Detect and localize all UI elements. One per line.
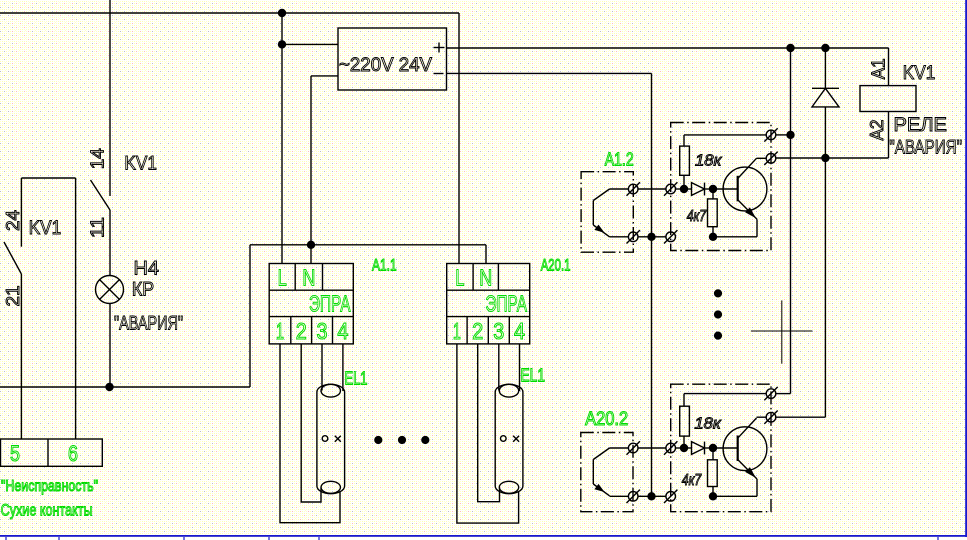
tube cap bottom	[321, 481, 340, 493]
svg-text:А20.2: А20.2	[585, 409, 628, 430]
node -24V A20.2	[647, 492, 655, 500]
wire base	[713, 447, 738, 449]
wire pin3 drop	[498, 344, 500, 391]
svg-text:4к7: 4к7	[682, 472, 702, 489]
svg-text:24: 24	[3, 210, 23, 231]
wire 18k terminal A20.2	[776, 393, 791, 395]
node L1 / supply input	[278, 40, 286, 48]
power supply U1 box	[338, 28, 447, 90]
relay coil KV1 box	[860, 86, 916, 112]
wire bottom left horizontal to N rail	[0, 386, 250, 388]
svg-text:3: 3	[493, 318, 504, 344]
svg-text:EL1: EL1	[521, 366, 546, 386]
svg-text:N: N	[479, 265, 492, 291]
svg-text:21: 21	[3, 286, 23, 307]
terminal amp input top	[666, 184, 676, 194]
svg-text:"АВАРИЯ": "АВАРИЯ"	[889, 137, 962, 159]
wire contact 24 upper lead	[20, 178, 22, 247]
wire pin2 route	[478, 344, 500, 502]
wire sensor to amp bottom	[638, 236, 666, 238]
transistor Q1	[723, 167, 767, 211]
terminal sensor top	[628, 443, 638, 453]
plus sign	[434, 47, 445, 49]
wire N rail riser	[249, 245, 251, 387]
wire 18k terminal A1.2	[776, 134, 791, 136]
svg-text:6: 6	[68, 441, 78, 466]
wire top edge	[21, 177, 75, 179]
wire sensor to amp top	[638, 188, 666, 190]
terminal amp input bottom	[666, 492, 676, 502]
svg-text:L: L	[278, 265, 287, 291]
diode VD1	[824, 48, 826, 88]
KV1 contact block left	[1, 178, 103, 466]
sensor block A20.2	[581, 384, 778, 512]
blue drawing border right	[965, 0, 967, 537]
phototransistor symbol	[610, 188, 629, 190]
resistor 4k7	[712, 448, 714, 460]
svg-text:4к7: 4к7	[687, 208, 707, 225]
wire N to ЭПРА A20.1 pin N	[485, 245, 487, 264]
terminal collector output	[766, 412, 776, 422]
svg-text:14: 14	[88, 148, 108, 169]
blue drawing border bottom	[0, 535, 967, 537]
svg-text:KV1: KV1	[29, 217, 62, 239]
sensor dash-dot box	[581, 172, 633, 253]
diode A1.2	[692, 183, 705, 196]
terminal sensor bottom	[628, 232, 638, 242]
node top bus / L1	[278, 9, 286, 17]
wire N to ЭПРА A1.1 pin N	[310, 76, 312, 264]
diode A20.2	[692, 442, 705, 455]
wire relay coil A2 down	[888, 112, 890, 159]
resistor 18k	[683, 436, 685, 448]
ЭПРА ballast A20.1	[447, 264, 530, 344]
wire pin4 drop	[519, 344, 521, 391]
svg-text:Н4: Н4	[134, 257, 160, 279]
svg-text:1: 1	[276, 318, 284, 344]
ЭПРА ballast A1.1	[269, 264, 353, 344]
wire -24V line	[447, 72, 652, 74]
tube cap top	[499, 384, 518, 397]
svg-text:5: 5	[10, 441, 20, 466]
amplifier dash-dot box A20.2	[671, 384, 771, 512]
wire A2 horizontal to collector terminal	[776, 157, 889, 159]
node diode anode A1.2	[680, 185, 688, 193]
wire N input to power supply	[311, 75, 338, 77]
svg-text:2: 2	[296, 318, 307, 344]
wire KV1 contact 14 upper lead	[109, 0, 111, 196]
tube cap top	[321, 384, 340, 397]
wire phase to ЭПРА A1.1 pin L	[281, 13, 283, 264]
terminal 18k output	[766, 130, 776, 140]
wire 18k bus riser	[790, 48, 792, 394]
emitter arrow Q2	[745, 467, 756, 478]
terminal strip 5/6 box	[1, 439, 103, 466]
contact KV1 21-24 blade	[4, 242, 21, 274]
tube marks	[322, 436, 328, 442]
sensor arrow A1.2	[594, 225, 604, 233]
minus sign	[434, 73, 444, 75]
wire emitter to bottom	[713, 236, 757, 238]
svg-text:2: 2	[472, 318, 483, 344]
node +24V / 18k riser	[786, 44, 794, 52]
svg-text:N: N	[302, 265, 315, 291]
wire input to diode	[676, 188, 692, 190]
node 4k7 emitter A1.2	[709, 233, 717, 241]
wire collector bus A20.2	[824, 158, 826, 417]
wire top bus 220V phase	[0, 12, 459, 14]
node diode cathode A20.2	[709, 444, 717, 452]
node 4k7 emitter A20.2	[709, 492, 717, 500]
svg-text:3: 3	[317, 318, 328, 344]
terminal amp input top	[666, 443, 676, 453]
node diode anode A20.2	[680, 444, 688, 452]
wire +24V bus	[447, 47, 889, 49]
svg-text:A2: A2	[867, 120, 887, 141]
wire sensor to amp bottom	[638, 495, 666, 497]
svg-text:1: 1	[453, 318, 461, 344]
svg-text:А1.1: А1.1	[372, 255, 397, 274]
ellipsis dots between lamps	[374, 436, 429, 444]
lamp H4 circle	[96, 276, 124, 304]
svg-text:ЭПРА: ЭПРА	[309, 291, 351, 317]
wire N horizontal bus	[250, 244, 486, 246]
resistor 18k	[683, 175, 685, 189]
svg-text:А1.2: А1.2	[605, 150, 634, 170]
svg-text:EL1: EL1	[345, 369, 368, 389]
svg-text:A1: A1	[868, 58, 888, 79]
node 18k riser / A1.2	[786, 131, 794, 139]
wire pin3 drop	[321, 344, 323, 391]
wire +24V to relay coil A1	[888, 48, 890, 86]
sensor dash-dot box	[581, 433, 633, 512]
svg-text:"АВАРИЯ": "АВАРИЯ"	[114, 313, 183, 335]
terminal 18k output	[766, 389, 776, 399]
sensor block A1.2	[581, 123, 778, 253]
svg-text:11: 11	[88, 217, 108, 238]
wire pin4 drop	[342, 344, 344, 391]
cursor crosshair	[751, 300, 813, 363]
svg-text:А20.1: А20.1	[541, 255, 571, 274]
svg-text:Сухие контакты: Сухие контакты	[1, 501, 93, 520]
node -24V A1.2	[647, 233, 655, 241]
terminal sensor top	[628, 184, 638, 194]
wire contact 11 to lamp H4	[109, 210, 111, 276]
svg-text:4: 4	[514, 318, 525, 344]
svg-text:KV1: KV1	[124, 153, 156, 175]
svg-text:КР: КР	[132, 279, 154, 301]
node +24V / diode	[821, 44, 829, 52]
node diode cathode A1.2	[709, 185, 717, 193]
transistor Q2	[723, 427, 767, 471]
wire input to diode	[676, 447, 692, 449]
svg-text:РЕЛЕ: РЕЛЕ	[894, 114, 948, 136]
lamp EL1 second	[457, 344, 523, 523]
wire pin1 route	[280, 344, 340, 523]
tube EL1 outline	[495, 384, 523, 493]
svg-text:~220V 24V: ~220V 24V	[339, 54, 432, 76]
tube EL1 outline	[317, 384, 345, 493]
contact KV1 14-11 blade	[91, 180, 111, 210]
blue table ticks	[6, 537, 938, 540]
white strip below border	[0, 537, 967, 540]
lamp EL1 first	[280, 344, 345, 523]
emitter arrow Q1	[745, 207, 756, 218]
svg-text:L: L	[455, 265, 464, 291]
svg-text:4: 4	[337, 318, 348, 344]
wire sensor to amp top	[638, 447, 666, 449]
wire pin1 route	[457, 344, 519, 523]
sensor arrow A20.2	[594, 484, 604, 492]
wire -24V rail down	[651, 73, 653, 496]
phototransistor symbol	[610, 447, 629, 449]
terminal collector output	[766, 154, 776, 164]
node N bus / N1	[307, 241, 315, 249]
node lamp H4 / N return	[105, 383, 113, 391]
wire base	[713, 188, 738, 190]
svg-text:"Неисправность": "Неисправность"	[1, 478, 98, 495]
wire right edge to terminal 6	[75, 178, 77, 439]
terminal amp input bottom	[666, 232, 676, 242]
tube marks	[501, 436, 507, 442]
svg-text:ЭПРА: ЭПРА	[486, 291, 528, 317]
vertical ellipsis dots	[714, 289, 722, 339]
svg-text:18к: 18к	[694, 415, 721, 432]
terminal sensor bottom	[628, 492, 638, 502]
wire phase input to power supply	[282, 43, 338, 45]
tube cap bottom	[499, 481, 518, 493]
wire contact 21 lower lead to terminal 5	[20, 274, 22, 439]
svg-text:18к: 18к	[695, 153, 722, 170]
node A2 / diode	[821, 154, 829, 162]
amplifier dash-dot box A1.2	[671, 123, 771, 251]
wire drop to ЭПРА A20.1 pin L	[458, 13, 460, 264]
svg-text:KV1: KV1	[903, 62, 936, 84]
wire lamp H4 to node	[109, 304, 111, 388]
wire emitter to bottom	[713, 495, 757, 497]
resistor 4k7	[712, 189, 714, 199]
wire pin2 route	[301, 344, 321, 502]
